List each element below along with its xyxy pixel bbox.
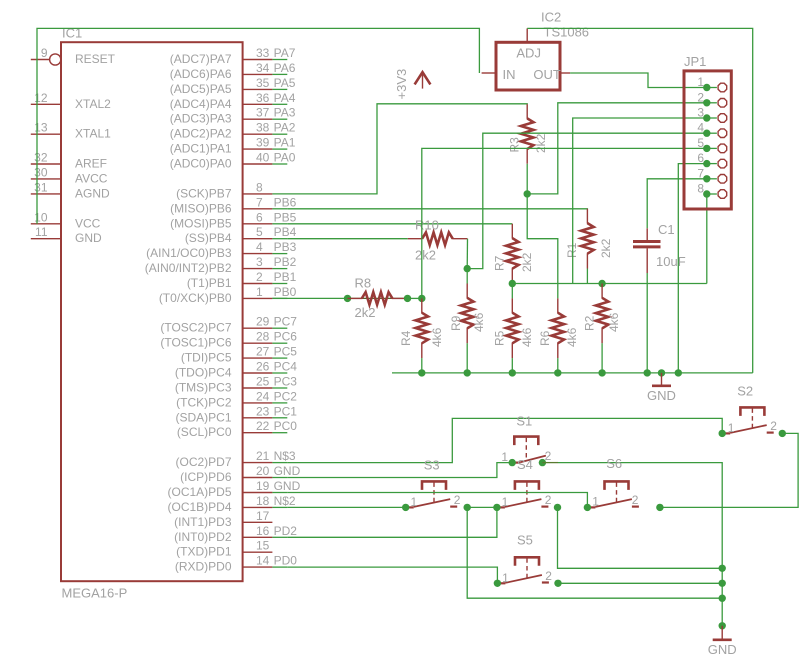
svg-text:(AIN0/INT2)PB2: (AIN0/INT2)PB2 [145,261,232,275]
svg-text:22: 22 [256,419,270,433]
svg-text:IC2: IC2 [541,10,561,25]
wire JP1 pin6 to bus [678,164,707,373]
wire PD2 from pin16 up to S4 pin1 [287,507,497,537]
svg-text:12: 12 [34,91,48,105]
svg-text:(SS)PB4: (SS)PB4 [185,231,232,245]
node R3-out junction [524,190,531,197]
svg-text:PC0: PC0 [274,419,298,433]
wire R10 out down to node3 [466,239,468,269]
junction S1 pin2 [539,459,546,466]
wire OUT to JP1 pin1 [570,73,707,88]
svg-text:(T1)PB1: (T1)PB1 [187,276,232,290]
wire PB4 to R10 [287,238,408,240]
IC1 pin 19 (OC1A)PD5 [167,479,300,499]
svg-text:(SDA)PC1: (SDA)PC1 [175,410,231,424]
IC1 pin 35 (ADC5)PA5 [170,76,296,96]
wire R3 bottom to junction [526,164,528,194]
ground GND symbol bottom right [708,626,737,657]
IC1 pin 38 (ADC2)PA2 [170,121,296,141]
svg-text:2: 2 [697,90,704,104]
svg-text:26: 26 [256,360,270,374]
svg-text:XTAL2: XTAL2 [75,97,111,111]
wire PB7 net: pin8 to +3V3 rail to R3 top [272,104,527,194]
IC1 pin 17 (INT1)PD3 [174,509,272,529]
wire S1 pin2 to ground column [558,463,722,626]
wire S2 pin2 to S6 pin2 [660,433,798,507]
svg-text:8: 8 [256,180,263,194]
svg-text:S3: S3 [424,458,440,473]
resistor R1 [565,209,613,269]
svg-text:(ADC5)PA5: (ADC5)PA5 [170,82,232,96]
IC1 pin 7 (MISO)PB6 [170,195,296,215]
svg-text:PD2: PD2 [274,524,298,538]
junction S3 pin2 [464,504,471,511]
svg-text:(ADC0)PA0: (ADC0)PA0 [170,157,232,171]
svg-text:40: 40 [256,151,270,165]
svg-text:IN: IN [503,67,516,82]
IC1 pin 36 (ADC4)PA4 [170,91,296,111]
svg-text:S6: S6 [606,456,622,471]
svg-text:(OC1B)PD4: (OC1B)PD4 [167,500,231,514]
svg-text:AREF: AREF [75,157,107,171]
svg-text:(ADC6)PA6: (ADC6)PA6 [170,67,232,81]
wire ADJ to right rail down to ground bus [527,28,753,373]
svg-text:TS1086: TS1086 [544,25,590,40]
IC1 pin 12 XTAL2 [31,91,111,111]
svg-text:RESET: RESET [75,52,116,66]
svg-text:1: 1 [728,421,735,435]
svg-text:(OC2)PD7: (OC2)PD7 [175,455,231,469]
svg-text:GND: GND [708,642,737,657]
svg-text:R10: R10 [415,218,439,233]
svg-text:PC5: PC5 [274,345,298,359]
svg-text:PA7: PA7 [274,46,296,60]
wire node3 to JP1 pin4 [467,133,707,268]
svg-text:PA2: PA2 [274,121,296,135]
IC1 pin 13 XTAL1 [31,121,111,141]
ground GND symbol on bus [647,373,676,403]
switch S2 [725,383,778,435]
junction S6 pin1 [584,504,591,511]
resistor R2 [582,284,621,344]
IC1 pin 14 (RXD)PD0 [175,554,297,574]
svg-text:(SCL)PC0: (SCL)PC0 [177,425,232,439]
svg-text:S1: S1 [516,414,532,429]
svg-text:10: 10 [34,210,48,224]
IC1 pin 28 (TOSC1)PC6 [160,330,297,350]
IC1 pin 16 (INT0)PD2 [174,524,297,544]
svg-text:PC2: PC2 [274,389,298,403]
svg-text:GND: GND [274,464,301,478]
svg-text:(MISO)PB6: (MISO)PB6 [170,201,232,215]
svg-text:PC1: PC1 [274,404,298,418]
junction bus x=557.8 [554,369,561,376]
svg-text:PB0: PB0 [274,285,297,299]
IC1 pin 6 (MOSI)PB5 [170,210,296,230]
IC1 pin 8 (SCK)PB7 [176,180,272,200]
IC1 pin 25 (TMS)PC3 [175,375,297,395]
wire PD0 from pin14 to S5 pin1 [287,567,497,583]
svg-text:(TCK)PC2: (TCK)PC2 [176,395,232,409]
capacitor C1 [633,222,686,273]
svg-text:2k2: 2k2 [534,133,548,153]
junction S3 pin1 [402,504,409,511]
svg-text:18: 18 [256,494,270,508]
IC1 pin 10 VCC [31,210,101,230]
junction S5 pin2 [554,580,561,587]
svg-text:(TOSC2)PC7: (TOSC2)PC7 [160,321,231,335]
wire PB0 to R8 [272,297,407,299]
junction bus x=602.1 [598,369,605,376]
svg-text:4k6: 4k6 [520,327,534,347]
svg-text:PB2: PB2 [274,255,297,269]
svg-text:6: 6 [697,151,704,165]
svg-text:(INT0)PD2: (INT0)PD2 [174,530,232,544]
svg-text:31: 31 [34,180,48,194]
wire R2 bottom to bus [601,343,603,373]
svg-text:6: 6 [256,210,263,224]
svg-text:PA4: PA4 [274,91,296,105]
wire node2 up to JP1 pin3 [573,118,707,284]
wire VCC from IC1 pin10 up-left and to regulator IN [37,28,479,223]
svg-text:7: 7 [697,166,704,180]
junction bus x=467.2 [464,369,471,376]
JP1 pin 4 [697,121,726,138]
svg-text:38: 38 [256,121,270,135]
junction ground column y=568.3 [719,565,726,572]
svg-text:(ADC1)PA1: (ADC1)PA1 [170,142,232,156]
svg-text:R9: R9 [449,315,463,331]
svg-text:AGND: AGND [75,186,110,200]
IC1 pin 29 (TOSC2)PC7 [160,315,297,335]
svg-text:(TXD)PD1: (TXD)PD1 [176,545,232,559]
svg-text:(ICP)PD6: (ICP)PD6 [180,470,232,484]
wire node3 to R9 top [466,269,468,284]
svg-text:(INT1)PD3: (INT1)PD3 [174,515,232,529]
svg-text:(SCK)PB7: (SCK)PB7 [176,186,232,200]
svg-text:39: 39 [256,136,270,150]
IC1 pin 11 GND [31,225,102,245]
svg-text:2k2: 2k2 [520,252,534,272]
svg-text:5: 5 [697,136,704,150]
svg-text:PC3: PC3 [274,375,298,389]
svg-text:9: 9 [41,46,48,60]
junction S5 pin1 [494,580,501,587]
svg-text:30: 30 [34,165,48,179]
junction ground column y=598.2 [719,595,726,602]
wire S3 pin2 to S4 pin1 [467,506,497,508]
IC1 pin 40 (ADC0)PA0 [170,151,296,171]
svg-text:GND: GND [75,231,102,245]
svg-text:(TMS)PC3: (TMS)PC3 [175,381,232,395]
svg-text:1: 1 [501,450,508,464]
wire R4 bottom to bus [421,358,423,373]
svg-text:1: 1 [697,75,704,89]
wire R1 bottom to node2 rail [586,269,588,284]
node R10/R9 junction [464,265,471,272]
svg-text:(AIN1/OC0)PB3: (AIN1/OC0)PB3 [146,246,232,260]
resistor R7 [493,224,534,284]
svg-text:11: 11 [35,225,48,239]
svg-text:2: 2 [545,569,552,583]
junction S2 pin1 [719,430,726,437]
svg-text:R3: R3 [508,137,522,153]
svg-text:MEGA16-P: MEGA16-P [62,586,128,601]
wire PB5 to R7 top [287,223,512,225]
IC1 pin 39 (ADC1)PA1 [170,136,296,156]
resistor R10 [408,218,468,263]
wire R5 bottom to bus [511,358,513,373]
svg-text:PC6: PC6 [274,330,298,344]
svg-text:R8: R8 [355,276,372,291]
svg-text:PD0: PD0 [274,554,298,568]
svg-text:XTAL1: XTAL1 [75,127,111,141]
svg-text:OUT: OUT [533,67,561,82]
svg-text:(OC1A)PD5: (OC1A)PD5 [167,485,231,499]
svg-text:+3V3: +3V3 [394,69,409,100]
IC2 pin OUT [560,72,570,74]
svg-text:R1: R1 [565,242,579,258]
svg-text:33: 33 [256,46,270,60]
resistor R4 [399,298,444,358]
svg-text:2: 2 [256,270,263,284]
IC1 pin 26 (TDO)PC4 [175,360,297,380]
junction bus x=678.3 [675,369,682,376]
svg-text:PC7: PC7 [274,315,298,329]
resistor R6 [538,298,579,358]
svg-text:4k6: 4k6 [607,312,621,332]
svg-text:ADJ: ADJ [516,46,541,61]
svg-text:GND: GND [274,479,301,493]
svg-text:PA6: PA6 [274,61,296,75]
junction S4 pin2 [554,504,561,511]
IC1 pin 23 (SDA)PC1 [175,404,297,424]
svg-text:23: 23 [256,404,270,418]
svg-text:N$3: N$3 [274,449,296,463]
svg-text:PA5: PA5 [274,76,296,90]
svg-text:2k2: 2k2 [415,248,436,263]
wire S3 pin2 down to ground row [467,507,722,598]
svg-text:3: 3 [256,255,263,269]
switch S4 [499,457,552,509]
IC1 pin 22 (SCL)PC0 [177,419,297,439]
svg-text:R6: R6 [538,330,552,346]
svg-text:20: 20 [256,464,270,478]
wire node1 to JP1 pin2 [527,103,707,194]
junction S2 pin2 [779,430,786,437]
resistor R8 [348,276,408,321]
wire ground bus [392,372,753,374]
svg-text:PA0: PA0 [274,151,296,165]
svg-text:(ADC2)PA2: (ADC2)PA2 [170,127,232,141]
IC1 pin 3 (AIN0/INT2)PB2 [145,255,297,275]
svg-text:35: 35 [256,76,270,90]
IC1 pin 4 (AIN1/OC0)PB3 [146,240,296,260]
resistor R9 [449,284,486,344]
IC1 pin 24 (TCK)PC2 [176,389,297,409]
svg-text:PB4: PB4 [274,225,297,239]
wire node2 down to R5 top [511,284,513,299]
IC1 pin 34 (ADC6)PA6 [170,61,296,81]
wire N$3 from pin21 to S2 pin1 [287,418,722,462]
svg-text:28: 28 [256,330,270,344]
resistor R3 [508,104,549,164]
svg-text:C1: C1 [658,222,675,237]
svg-text:4k6: 4k6 [430,327,444,347]
junction bus x=512.3 [509,369,516,376]
node R8 pin1 junction [344,295,351,302]
svg-text:2k2: 2k2 [355,305,376,320]
svg-text:S4: S4 [517,457,533,472]
svg-text:27: 27 [256,345,270,359]
wire N$2 from pin18 to S3 pin1 [287,506,405,508]
wire node4 up to JP1 pin5 [422,148,707,298]
IC IC1 MEGA16-P body [61,26,243,601]
svg-text:13: 13 [34,121,48,135]
IC2 pin ADJ [526,28,528,42]
svg-text:PA1: PA1 [274,136,296,150]
svg-text:PB3: PB3 [274,240,297,254]
IC1 pin 20 (ICP)PD6 [180,464,300,484]
wire node1 down to R6 top [527,194,558,299]
JP1 pin 3 [697,106,726,123]
svg-text:5: 5 [256,225,263,239]
IC1 pin 31 AGND [31,180,110,200]
svg-text:(RXD)PD0: (RXD)PD0 [175,560,232,574]
wire S1 pin2 overlap [542,462,558,464]
JP1 pin 5 [697,136,726,153]
JP1 pin 8 [697,182,726,199]
svg-text:2k2: 2k2 [599,238,613,258]
svg-text:1: 1 [256,285,263,299]
connector JP1 body [684,54,731,209]
svg-text:R2: R2 [582,315,596,331]
svg-text:(ADC3)PA3: (ADC3)PA3 [170,112,232,126]
supply +3V3 arrow [394,69,430,100]
switch S5 [500,533,553,585]
svg-text:GND: GND [647,388,676,403]
svg-text:VCC: VCC [75,216,101,230]
wire node2 rail to JP1 pin8 column [512,283,707,285]
IC1 pin 9 RESET [31,46,116,66]
svg-text:2: 2 [454,493,461,507]
svg-text:PB5: PB5 [274,210,297,224]
JP1 pin 6 [697,151,726,168]
IC1 pin 37 (ADC3)PA3 [170,106,296,126]
wire S5 pin2 to ground column [558,582,722,584]
junction ground column y=625.8 [719,622,726,629]
junction bus x=661.5 [658,369,665,376]
wire S4 pin2 down to ground column [558,507,723,568]
svg-text:R5: R5 [493,330,507,346]
svg-text:4k6: 4k6 [565,327,579,347]
svg-text:(TDO)PC4: (TDO)PC4 [175,366,232,380]
svg-text:PB6: PB6 [274,195,297,209]
svg-text:N$2: N$2 [274,494,296,508]
JP1 pin 2 [697,90,726,107]
wire R8 out to node4 [408,297,422,299]
IC1 pin 15 (TXD)PD1 [176,539,272,559]
IC1 pin 5 (SS)PB4 [185,225,297,245]
svg-text:29: 29 [256,315,270,329]
wire R9 bottom to bus [466,343,468,373]
svg-text:21: 21 [256,449,270,463]
switch S1 [501,414,551,465]
IC1 pin 32 AREF [31,151,107,171]
svg-text:14: 14 [256,554,270,568]
svg-text:15: 15 [256,539,270,553]
svg-text:3: 3 [697,106,704,120]
junction S4 pin1 [493,504,500,511]
svg-text:8: 8 [697,182,704,196]
junction S1 pin1 [509,459,516,466]
junction bus x=421.8 [418,369,425,376]
svg-text:1: 1 [592,494,599,508]
svg-text:4: 4 [256,240,263,254]
svg-text:(ADC4)PA4: (ADC4)PA4 [170,97,232,111]
svg-text:7: 7 [256,195,263,209]
wire JP1 pin8 down to node2 [706,194,708,284]
wire R6 bottom to bus [557,358,559,373]
svg-text:(ADC7)PA7: (ADC7)PA7 [170,52,232,66]
node R8/R4 junction [418,295,425,302]
wire C1 bottom to bus [646,273,648,373]
svg-text:1: 1 [502,571,509,585]
svg-text:(TDI)PC5: (TDI)PC5 [181,351,232,365]
svg-text:37: 37 [256,106,270,120]
switch S6 [590,456,639,509]
svg-text:R7: R7 [493,255,507,271]
svg-text:(TOSC1)PC6: (TOSC1)PC6 [160,336,231,350]
svg-text:R4: R4 [399,330,413,346]
svg-text:S2: S2 [737,383,753,398]
IC IC2 TS1086 body [496,10,589,91]
svg-text:36: 36 [256,91,270,105]
IC1 pin 1 (T0/XCK)PB0 [159,285,297,305]
svg-text:(T0/XCK)PB0: (T0/XCK)PB0 [159,291,232,305]
svg-text:S5: S5 [517,533,533,548]
svg-text:4k6: 4k6 [472,312,486,332]
svg-text:1: 1 [502,495,509,509]
svg-text:2: 2 [632,493,639,507]
svg-text:PB1: PB1 [274,270,297,284]
svg-text:10uF: 10uF [656,254,686,269]
svg-text:25: 25 [256,375,270,389]
junction S6 pin2 [656,504,663,511]
node R7-out junction [509,280,516,287]
IC1 pin 33 (ADC7)PA7 [170,46,296,66]
wire JP1 pin7 to C1 top [647,179,707,229]
junction ground column y=583.3 [719,580,726,587]
svg-text:32: 32 [34,151,48,165]
svg-text:4: 4 [697,121,704,135]
IC1 pin 27 (TDI)PC5 [181,345,297,365]
JP1 pin 7 [697,166,726,183]
svg-text:JP1: JP1 [684,54,706,69]
svg-text:19: 19 [256,479,270,493]
svg-text:1: 1 [411,495,418,509]
svg-text:PC4: PC4 [274,360,298,374]
IC1 pin 18 (OC1B)PD4 [167,494,295,514]
JP1 pin 1 [697,75,726,92]
svg-text:16: 16 [256,524,270,538]
svg-text:34: 34 [256,61,270,75]
switch S3 [408,458,461,509]
node R2 top junction [598,280,605,287]
wire GND pin20 to S1 pin1 [287,463,512,478]
IC1 pin 30 AVCC [31,165,108,185]
resistor R5 [493,298,534,358]
